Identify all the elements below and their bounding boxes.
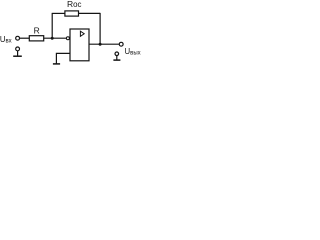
ground bar non-inverting	[53, 63, 60, 65]
node: junction dot output	[99, 43, 102, 46]
wire: feedback vertical right	[99, 13, 101, 44]
inverting input bubble	[66, 37, 69, 40]
background	[0, 0, 144, 70]
node: junction dot A	[51, 37, 54, 40]
terminal: input Uвх circle	[16, 36, 20, 40]
wire: lower-left stub	[17, 51, 19, 56]
terminal: output Uвых circle	[119, 42, 123, 46]
svg-text:R: R	[34, 25, 40, 35]
ground bar lower-right	[113, 59, 120, 61]
ground bar lower-left	[13, 55, 22, 57]
terminal: lower-left circle	[16, 47, 20, 51]
terminal: lower-right circle	[115, 52, 119, 56]
wire: feedback top left segment	[52, 12, 65, 14]
resistor R	[29, 36, 43, 41]
wire: output	[89, 43, 119, 45]
wire: feedback top right segment	[79, 12, 101, 14]
wire: feedback vertical left	[51, 13, 53, 38]
op-amp U1 body	[70, 29, 89, 61]
wire: resistor R to inverting input	[44, 37, 67, 39]
svg-text:Rос: Rос	[67, 0, 82, 9]
wire: lower-right stub	[116, 56, 118, 60]
resistor Roc	[65, 11, 79, 16]
wire: input to resistor R	[20, 37, 30, 39]
wire: non-inverting input	[56, 53, 70, 63]
op-amp amplification triangle	[80, 31, 84, 36]
